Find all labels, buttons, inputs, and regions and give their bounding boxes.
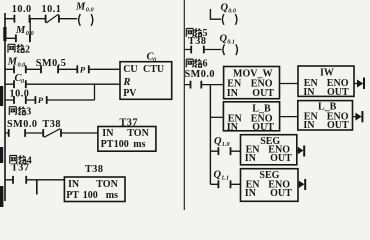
svg-text:T38: T38 — [85, 164, 103, 175]
svg-text:10.0: 10.0 — [12, 4, 32, 15]
network 1 rung 1 wire — [5, 18, 77, 20]
box MOV_W — [224, 67, 280, 99]
NC slash I0.1 — [46, 14, 58, 23]
contact Q1.1 — [218, 180, 230, 188]
net1 parallel branch wires — [5, 19, 31, 39]
contact M0.0 branch — [16, 34, 30, 42]
svg-text:OUT: OUT — [327, 87, 349, 98]
svg-text:ms: ms — [133, 139, 145, 150]
svg-text:100: 100 — [83, 190, 98, 201]
network 3 label — [9, 107, 31, 118]
contact SM0.0 — [9, 129, 25, 137]
svg-text:PT: PT — [66, 190, 79, 201]
contact I0.1 (NC) — [46, 15, 59, 23]
net2 rung C wire — [5, 99, 95, 101]
rail thick segment 3 — [0, 147, 3, 163]
junction rail net6 — [209, 85, 211, 185]
svg-text:TON: TON — [127, 128, 149, 139]
box SEG 1 — [241, 135, 297, 165]
svg-text:100: 100 — [114, 139, 129, 150]
svg-text:1.1: 1.1 — [221, 175, 229, 182]
net6 row 2 wire — [210, 116, 223, 118]
svg-text:R: R — [123, 77, 131, 88]
svg-text:TON: TON — [96, 179, 118, 190]
edge contact P rung C — [35, 96, 46, 104]
net6 row 4 stub wire — [210, 183, 240, 185]
continuation arrow row 1 — [354, 83, 358, 85]
svg-text:IN: IN — [68, 179, 80, 190]
contact Q1.0 — [218, 147, 230, 155]
svg-text:0: 0 — [21, 78, 24, 85]
svg-text:IN: IN — [245, 188, 257, 199]
svg-text:CTU: CTU — [143, 64, 164, 75]
svg-text:OUT: OUT — [252, 122, 274, 133]
svg-text:T38: T38 — [43, 119, 61, 130]
svg-text:T37: T37 — [11, 163, 29, 174]
svg-text:M: M — [15, 25, 26, 36]
svg-text:IN: IN — [102, 128, 114, 139]
net2 rung B wire — [5, 83, 121, 85]
net3 rung wire — [5, 132, 98, 134]
contact T37 — [13, 176, 26, 184]
svg-text:SM0.0: SM0.0 — [185, 69, 216, 80]
left power rail — [4, 13, 6, 201]
svg-text:P: P — [38, 95, 44, 105]
svg-text:0.1: 0.1 — [227, 39, 235, 46]
net4 continuation wire (wrap) — [210, 9, 221, 19]
svg-text:OUT: OUT — [270, 153, 292, 164]
net4 rung wire — [5, 179, 65, 181]
svg-text:Q: Q — [214, 136, 222, 147]
rail thick segment 1 — [3, 27, 6, 41]
svg-text:PV: PV — [123, 88, 137, 99]
svg-text:IN: IN — [245, 153, 257, 164]
network 5 label — [186, 28, 207, 39]
coil M0.0 — [79, 14, 93, 26]
svg-text:Q: Q — [214, 170, 222, 181]
box IW — [298, 66, 354, 96]
timer T38 box — [64, 177, 125, 202]
svg-text:OUT: OUT — [327, 120, 349, 131]
network 6 label — [186, 59, 207, 70]
svg-text:0.0: 0.0 — [228, 8, 236, 15]
svg-text:0.0: 0.0 — [18, 62, 26, 69]
svg-text:OUT: OUT — [252, 88, 274, 99]
NC slash T38 — [44, 129, 60, 138]
box SEG 2 — [241, 169, 299, 202]
network 2 label — [8, 44, 30, 55]
svg-text:P: P — [80, 64, 86, 74]
continuation arrow row 3 — [297, 150, 299, 152]
svg-text:2: 2 — [25, 44, 30, 55]
net5 rung wire — [184, 49, 221, 51]
dangling branch wire (continues next column) — [36, 180, 38, 195]
svg-text:CU: CU — [123, 64, 137, 75]
contact C0 — [14, 80, 26, 88]
continuation arrow row 4 — [298, 183, 300, 185]
coil Q0.1 — [223, 44, 238, 55]
svg-text:IN: IN — [303, 120, 315, 131]
net2 rung A wire — [5, 68, 121, 70]
contact I0.0 rung C — [14, 96, 26, 104]
svg-text:M: M — [7, 57, 18, 68]
column divider line — [183, 0, 185, 210]
net6 row 3 stub wire — [210, 150, 240, 152]
junction wire rung C to rung B — [94, 84, 96, 100]
rail thick segment 2 — [0, 86, 3, 106]
rail thick segment 4 — [0, 186, 3, 207]
timer T37 box — [98, 127, 156, 152]
svg-text:IW: IW — [320, 68, 334, 79]
svg-text:1.0: 1.0 — [222, 141, 230, 148]
coil Q0.0 — [222, 14, 237, 25]
svg-text:M: M — [75, 2, 86, 13]
contact I0.0 — [14, 15, 29, 23]
contact SM0.5 — [41, 65, 58, 73]
svg-text:3: 3 — [26, 107, 31, 118]
svg-text:PT: PT — [101, 139, 114, 150]
box L_B 1 — [223, 102, 279, 131]
svg-text:6: 6 — [203, 59, 208, 70]
continuation arrow row 2 — [353, 116, 357, 118]
svg-text:T38: T38 — [188, 36, 206, 47]
counter C0 box — [120, 62, 172, 100]
svg-text:10.1: 10.1 — [42, 4, 62, 15]
contact SM0.0 net6 — [191, 81, 202, 89]
svg-text:ms: ms — [106, 190, 118, 201]
svg-text:IN: IN — [227, 88, 239, 99]
wire MOV_W to IW — [280, 83, 299, 85]
contact T38 net5 — [191, 46, 204, 54]
net6 rung 1 wire — [184, 84, 224, 86]
network 4 label — [10, 155, 32, 166]
edge contact P rung A — [77, 65, 89, 73]
box L_B 2 — [298, 101, 353, 130]
svg-text:SM0.0: SM0.0 — [7, 119, 38, 130]
svg-text:IN: IN — [303, 87, 315, 98]
contact M0.0 — [14, 65, 26, 73]
contact T38 (NC) — [43, 129, 61, 137]
svg-text:0.0: 0.0 — [86, 7, 94, 14]
wire L_B1 to L_B2 — [280, 116, 298, 118]
svg-text:IN: IN — [227, 122, 239, 133]
svg-text:OUT: OUT — [270, 188, 292, 199]
